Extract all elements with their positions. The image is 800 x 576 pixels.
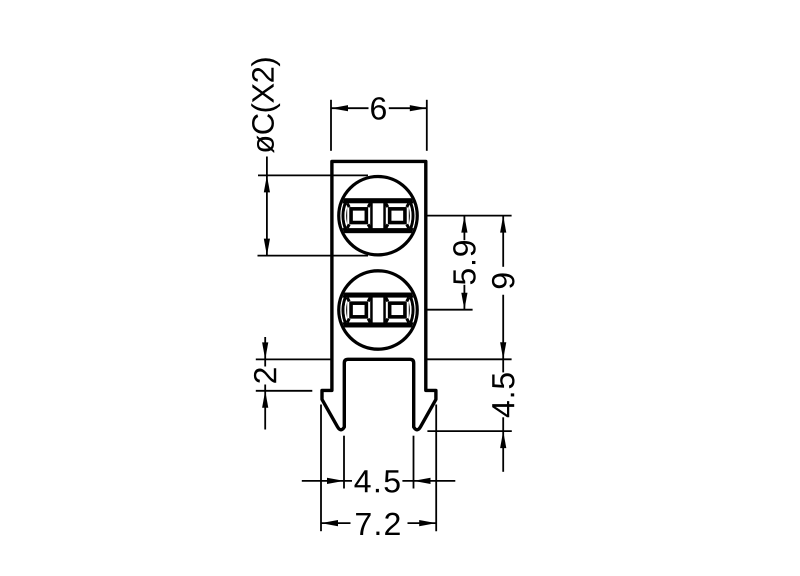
- dim 4.5 bottom dimension line and shafts: [302, 480, 352, 482]
- terminal A left wire hole: [347, 203, 370, 228]
- terminal A left screw cage square: [351, 209, 366, 223]
- dim 7.2 extension line left: [320, 405, 322, 532]
- dim 4.5 right extension line bottom (leg tips): [427, 430, 511, 432]
- dim 6 extension line right: [426, 100, 428, 151]
- terminal B left end slit arcs: [341, 294, 344, 325]
- dim 6 right arrowhead: [410, 105, 427, 111]
- dim 4.5 bottom right arrowhead: [414, 478, 431, 484]
- dim 4.5 right dimension line stubs: [502, 359, 504, 372]
- terminal A right end cage arc: [410, 201, 413, 231]
- dim 4.5 bottom left arrowhead: [327, 478, 344, 484]
- dim 2 dimension line and shafts: [264, 337, 266, 359]
- terminal B left screw cage square: [351, 303, 366, 317]
- dim 2 extension line bottom: [256, 390, 312, 392]
- terminal A band bottom bar: [338, 228, 418, 233]
- dim 5.9 extension line top: [427, 215, 511, 217]
- terminal B right wire hole: [386, 298, 409, 323]
- dim label 9: [492, 273, 515, 288]
- dim 5.9 top arrowhead: [461, 216, 467, 233]
- terminal B band top bar: [338, 293, 418, 298]
- dim phiC extension line top: [258, 174, 368, 176]
- terminal B right hole chamfer bevels: [386, 298, 409, 323]
- dim phiC dimension line: [266, 157, 268, 256]
- terminal B right end slit arcs: [412, 294, 415, 325]
- terminal B right end cage arc: [410, 295, 413, 325]
- dim label phiC(X2): [251, 58, 280, 153]
- terminal A left end cage arc: [343, 201, 346, 231]
- dim phiC extension line bottom: [258, 255, 369, 257]
- connector body outline: [322, 161, 436, 429]
- terminal B band bottom bar: [338, 322, 418, 327]
- terminal B right screw cage square: [390, 303, 405, 317]
- terminal A middle gap: [373, 203, 384, 228]
- dim 6 left arrowhead: [331, 105, 348, 111]
- dim 2 top arrowhead: [262, 342, 268, 359]
- dim 5.9 bottom arrowhead: [461, 293, 467, 310]
- dim 5.9 extension line bottom: [427, 309, 472, 311]
- dim 2 bottom arrowhead: [262, 391, 268, 408]
- dim 4.5 right bottom arrowhead: [500, 431, 506, 448]
- dim 4.5 right lower shaft: [502, 431, 504, 472]
- dim 4.5 bottom extension line right: [413, 436, 415, 489]
- dim label 5.9: [453, 241, 476, 284]
- terminal B left hole chamfer bevels: [347, 298, 370, 323]
- dim 9 top arrowhead: [500, 216, 506, 233]
- dim 9 extension line bottom (web level): [427, 358, 511, 360]
- dim label 6: [371, 97, 386, 120]
- terminal A left hole chamfer bevels: [347, 203, 370, 228]
- dim label 7.2: [356, 513, 400, 535]
- terminal B clamp circle: [339, 271, 417, 349]
- terminal A right screw cage square: [390, 209, 405, 223]
- terminal A right wire hole: [386, 203, 409, 228]
- terminal B left wire hole: [347, 298, 370, 323]
- dim label 2: [254, 368, 276, 383]
- dim 7.2 dimension line: [321, 522, 351, 524]
- terminal B clamp band: [338, 293, 418, 328]
- dim phiC top arrowhead: [264, 175, 270, 192]
- dim label 4.5 bottom: [354, 470, 399, 492]
- dim 6 extension line left: [330, 100, 332, 151]
- terminal A clamp circle: [339, 177, 417, 255]
- dim label 4.5 right: [492, 373, 514, 417]
- dim 7.2 right arrowhead: [419, 520, 436, 526]
- dim phiC bottom arrowhead: [264, 239, 270, 256]
- dim 7.2 left arrowhead: [321, 520, 338, 526]
- dim 4.5 bottom extension line left: [343, 436, 345, 489]
- terminal A clamp band: [338, 198, 418, 233]
- terminal A left end slit arcs: [341, 200, 344, 231]
- terminal B middle gap: [373, 298, 384, 323]
- dim 9 bottom arrowhead: [500, 342, 506, 359]
- terminal A right end slit arcs: [412, 200, 415, 231]
- dim 7.2 extension line right: [435, 405, 437, 532]
- terminal B left end cage arc: [343, 295, 346, 325]
- dim 2 extension line top: [256, 358, 334, 360]
- dim 9 dimension line: [502, 216, 504, 267]
- terminal A right hole chamfer bevels: [386, 203, 409, 228]
- dim 6 dimension line: [331, 107, 369, 109]
- terminal A band top bar: [338, 198, 418, 203]
- dim 5.9 dimension line: [463, 216, 465, 241]
